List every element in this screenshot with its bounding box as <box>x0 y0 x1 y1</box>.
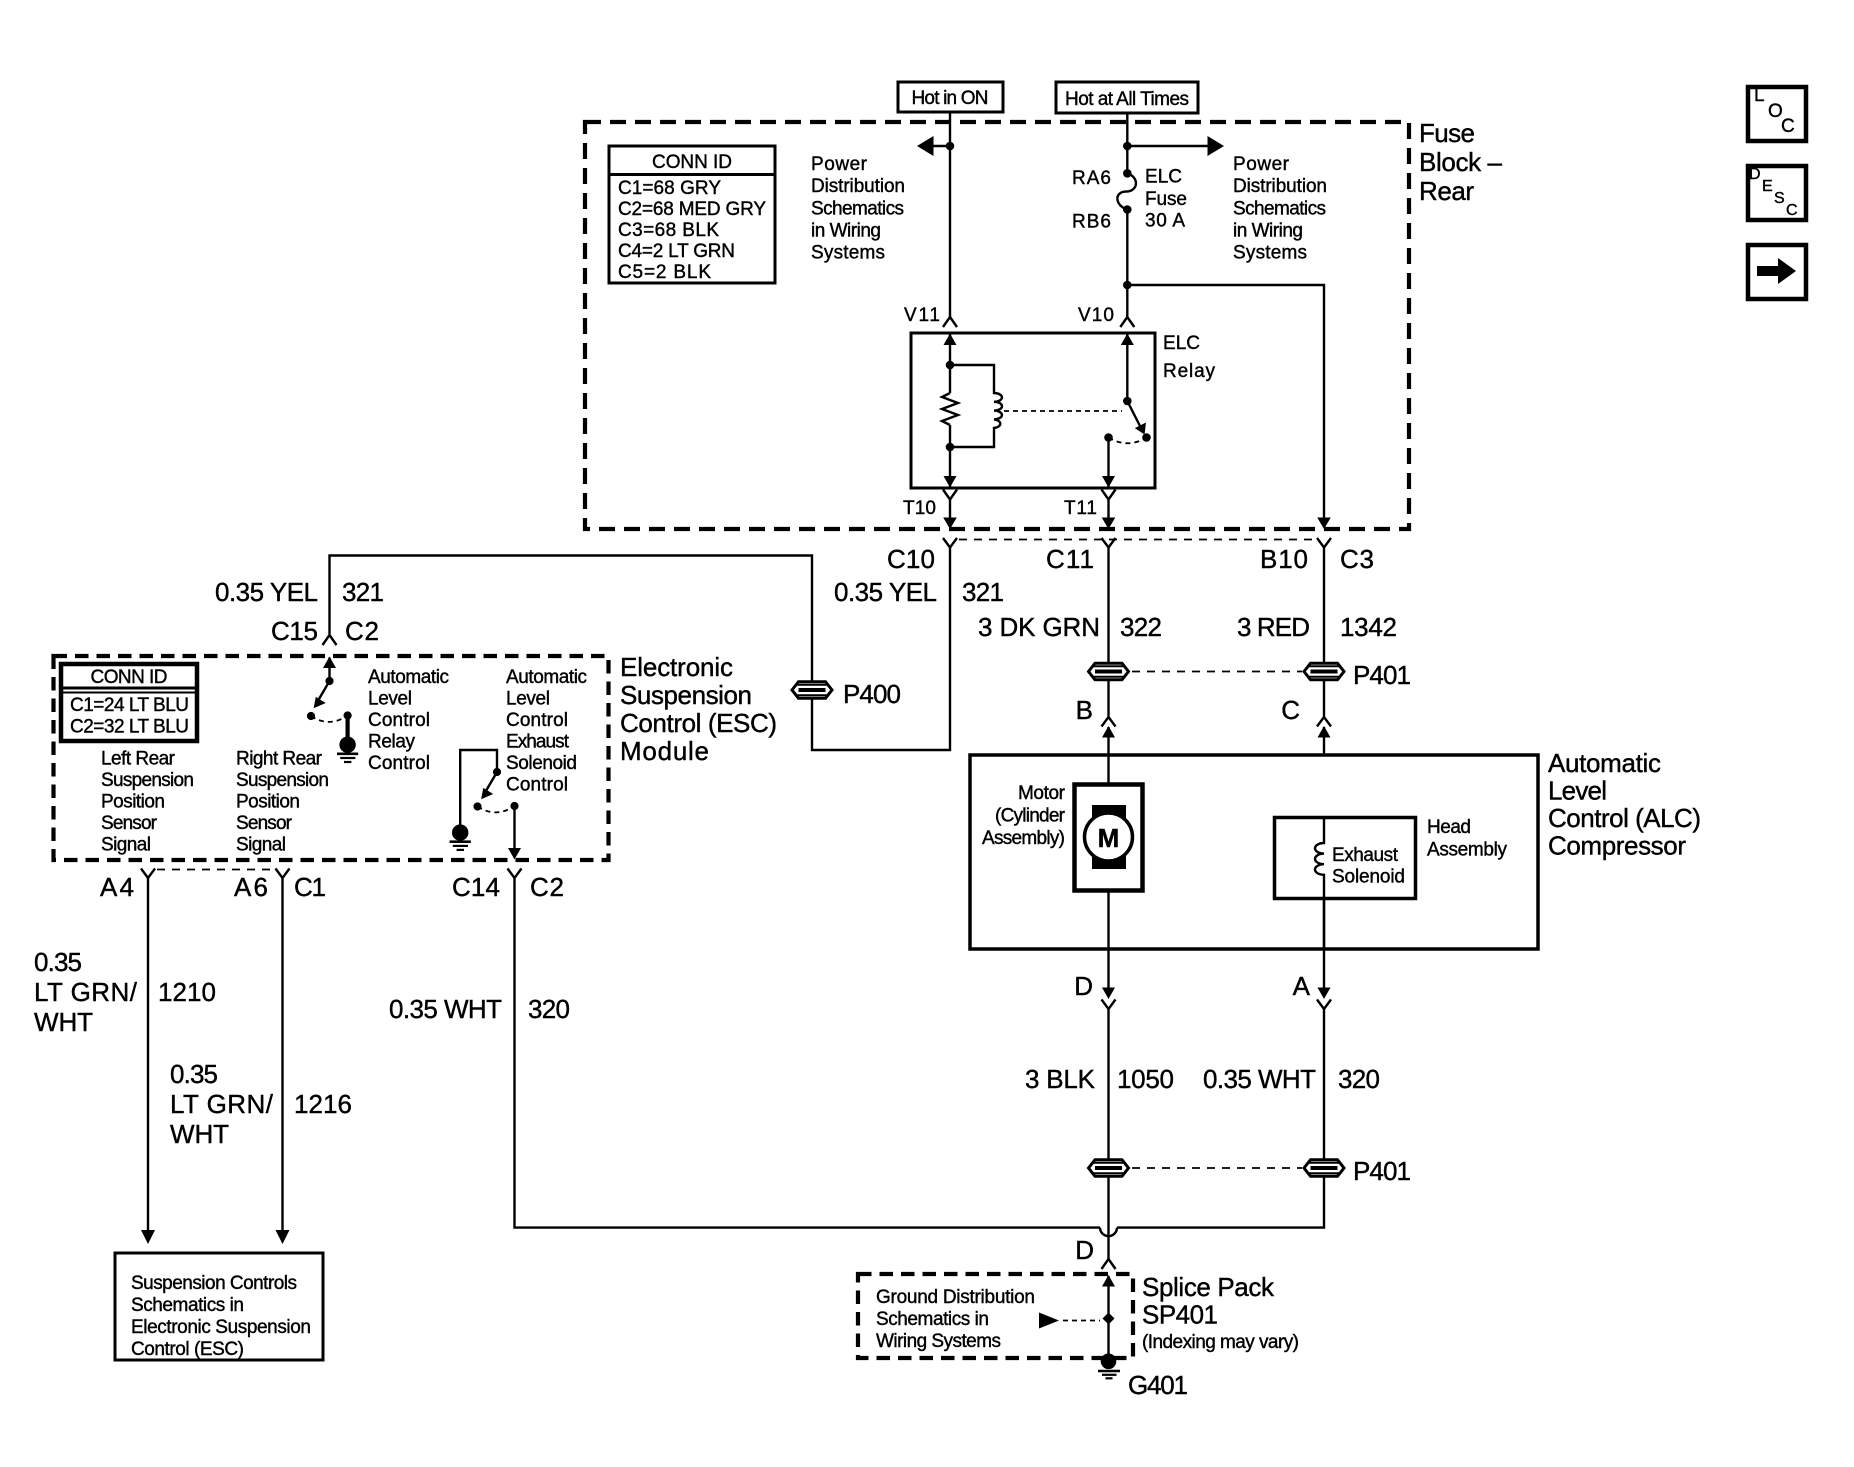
svg-text:WHT: WHT <box>34 1007 93 1037</box>
motor M1 (cylinder assembly) <box>1075 785 1143 891</box>
ELC relay box <box>911 333 1155 488</box>
svg-text:Position: Position <box>101 792 165 813</box>
svg-text:Control: Control <box>506 775 568 796</box>
exhaust solenoid control switch wiring <box>460 750 497 831</box>
svg-text:Control (ESC): Control (ESC) <box>620 708 777 738</box>
svg-text:Hot in ON: Hot in ON <box>912 88 989 109</box>
svg-text:Power: Power <box>1233 154 1290 175</box>
connector P401 lower left pass-through <box>1089 1160 1129 1177</box>
ALC compressor box <box>970 755 1538 949</box>
svg-text:RA6: RA6 <box>1072 168 1111 189</box>
relay pin T11 wire and male arrow down <box>1107 438 1109 488</box>
switch output post node <box>510 802 518 810</box>
relay pin T10 wire and male arrow down <box>949 425 951 487</box>
svg-text:0.35 WHT: 0.35 WHT <box>1203 1064 1316 1094</box>
svg-text:L: L <box>1754 85 1765 106</box>
label Splice Pack SP401 <box>1142 1272 1299 1353</box>
svg-text:3 DK GRN: 3 DK GRN <box>978 612 1100 642</box>
switch pivot node <box>325 677 333 685</box>
svg-text:Distribution: Distribution <box>1233 176 1327 197</box>
arrow to power distribution (right) <box>1127 145 1209 147</box>
connector T10 female chevron below relay <box>943 490 957 500</box>
pin C male arrow up <box>1323 727 1325 820</box>
svg-text:Fuse: Fuse <box>1145 189 1187 210</box>
wire A6/C1 sensor signal <box>281 878 283 1231</box>
label Electronic Suspension Control (ESC) Module <box>620 652 777 766</box>
node B10 branch <box>1123 281 1132 290</box>
svg-text:C: C <box>1281 695 1300 725</box>
relay resistor <box>942 393 958 425</box>
connector B10/C3 female chevron <box>1317 538 1331 548</box>
svg-text:CONN ID: CONN ID <box>652 152 732 173</box>
svg-text:Systems: Systems <box>1233 243 1307 264</box>
wire A to P401 lower <box>1323 1009 1325 1159</box>
wire A4 sensor signal <box>147 878 149 1231</box>
relay switch dashed arc <box>1109 438 1147 444</box>
ground lines (exhaust control) <box>450 840 471 843</box>
label 0.35 LT GRN/ WHT (A6) <box>170 1059 274 1149</box>
svg-text:322: 322 <box>1120 612 1162 642</box>
svg-text:M: M <box>1098 823 1120 853</box>
svg-text:0.35 WHT: 0.35 WHT <box>389 994 502 1024</box>
splice junction diamond <box>1103 1313 1115 1325</box>
exhaust solenoid feed wire through solenoid box <box>1323 817 1325 949</box>
relay pin V10 male arrow and switch common <box>1126 335 1128 402</box>
svg-text:Electronic: Electronic <box>620 652 733 682</box>
connector row dashed link line <box>959 539 1316 541</box>
relay switch arm end node <box>1142 433 1151 442</box>
relay coil branch <box>950 365 1002 447</box>
svg-text:C2: C2 <box>530 872 564 902</box>
suspension controls schematics box <box>115 1253 323 1360</box>
label ELC Relay <box>1163 333 1216 382</box>
exhaust solenooid box <box>1275 818 1416 899</box>
svg-text:A4: A4 <box>100 872 134 902</box>
ground lines (relay control) <box>337 752 358 755</box>
wire to C2 pin with male arrow down <box>513 806 515 848</box>
switch dashed arc (exhaust) <box>478 806 515 812</box>
svg-text:T10: T10 <box>903 498 936 519</box>
svg-text:Level: Level <box>1548 776 1607 806</box>
svg-text:in Wiring: in Wiring <box>811 221 881 242</box>
switch contact node <box>307 712 315 720</box>
label Ground Distribution Schematics in Wiring Systems <box>876 1287 1035 1352</box>
svg-text:Exhaust: Exhaust <box>506 732 570 753</box>
wire branch to B10 <box>1127 285 1324 519</box>
ELC fuse 30A element <box>1117 169 1136 214</box>
switch arm with arrowhead (exhaust) <box>487 772 498 790</box>
relay switch pivot node <box>1123 397 1132 406</box>
DESC button <box>1748 166 1806 220</box>
svg-text:Control (ESC): Control (ESC) <box>131 1339 244 1360</box>
node at power dist branch <box>1123 142 1132 151</box>
svg-text:in Wiring: in Wiring <box>1233 221 1303 242</box>
label 0.35 LT GRN/ WHT (A4) <box>34 947 138 1037</box>
svg-text:Control: Control <box>368 753 430 774</box>
switch arm with arrowhead <box>319 681 330 699</box>
wire C2 exhaust control to splice <box>515 878 1101 1228</box>
svg-text:Automatic: Automatic <box>506 667 587 688</box>
motor feed wire through box <box>1107 755 1109 890</box>
ground post <box>346 716 350 741</box>
svg-text:B: B <box>1076 695 1093 725</box>
svg-text:Right Rear: Right Rear <box>236 749 323 770</box>
arrow to power distribution (left) <box>933 145 950 147</box>
ground distribution dashed box <box>858 1274 1133 1358</box>
svg-text:(Indexing may vary): (Indexing may vary) <box>1142 1332 1299 1353</box>
svg-text:Electronic Suspension: Electronic Suspension <box>131 1317 311 1338</box>
svg-text:V11: V11 <box>904 305 940 326</box>
svg-text:320: 320 <box>1338 1064 1380 1094</box>
svg-text:Ground Distribution: Ground Distribution <box>876 1287 1035 1308</box>
connector C11 female chevron <box>1102 538 1116 548</box>
svg-text:C: C <box>1786 202 1798 219</box>
svg-text:C2=32 LT BLU: C2=32 LT BLU <box>70 717 189 738</box>
svg-text:Assembly): Assembly) <box>982 828 1065 849</box>
relay actuation dashed link <box>1004 410 1122 412</box>
svg-text:320: 320 <box>528 994 570 1024</box>
connector body dashed link A4-A6 <box>157 869 274 871</box>
svg-text:P400: P400 <box>843 679 901 709</box>
svg-text:Schematics in: Schematics in <box>876 1309 989 1330</box>
svg-text:C15: C15 <box>271 616 318 646</box>
fuse block - rear dashed enclosure <box>585 122 1409 529</box>
svg-text:Solenoid: Solenoid <box>506 753 577 774</box>
wire T10 to fuse block edge with male arrow <box>949 500 951 519</box>
svg-text:D: D <box>1075 1235 1094 1265</box>
svg-text:Level: Level <box>506 689 550 710</box>
label Automatic Level Control (ALC) Compressor <box>1548 748 1701 861</box>
svg-text:C1=68 GRY: C1=68 GRY <box>618 178 721 199</box>
svg-text:Exhaust: Exhaust <box>1332 845 1399 866</box>
svg-text:Schematics: Schematics <box>811 199 904 220</box>
svg-text:0.35 YEL: 0.35 YEL <box>834 577 937 607</box>
svg-text:Suspension: Suspension <box>236 770 329 791</box>
svg-text:3 BLK: 3 BLK <box>1025 1064 1096 1094</box>
svg-text:C4=2 LT GRN: C4=2 LT GRN <box>618 241 735 262</box>
wire C10 to P400 to C15 <box>330 548 951 751</box>
Hot in ON box <box>898 82 1003 112</box>
svg-text:D: D <box>1749 166 1761 183</box>
switch contact node (exhaust) <box>473 802 481 810</box>
label Motor (Cylinder Assembly) <box>982 783 1066 849</box>
label ELC Fuse 30 A <box>1145 167 1187 232</box>
next-page arrow button <box>1748 245 1806 299</box>
svg-text:Schematics: Schematics <box>1233 199 1326 220</box>
svg-text:S: S <box>1774 190 1785 207</box>
svg-text:30 A: 30 A <box>1145 211 1185 232</box>
svg-text:B10: B10 <box>1260 544 1308 574</box>
wire A6 endpoint triangle <box>276 1230 290 1244</box>
connector pin D female chevron <box>1102 1000 1116 1010</box>
svg-text:Control: Control <box>506 710 568 731</box>
svg-text:D: D <box>1074 971 1093 1001</box>
ALC relay control switch: male arrow at C2 pin <box>328 658 330 682</box>
svg-text:CONN ID: CONN ID <box>91 667 168 688</box>
svg-text:321: 321 <box>962 577 1004 607</box>
dashed link between upper P401 halves <box>1132 671 1302 673</box>
ground G401 lines <box>1098 1370 1120 1372</box>
svg-text:C14: C14 <box>452 872 500 902</box>
label Suspension Controls Schematics in ESC <box>131 1273 311 1360</box>
ground G401 ball <box>1101 1354 1117 1370</box>
wire T11 to fuse block edge with male arrow <box>1107 500 1109 519</box>
wire fuse output <box>1126 210 1128 318</box>
svg-text:Level: Level <box>368 689 412 710</box>
svg-text:0.35: 0.35 <box>34 947 82 977</box>
svg-text:C1=24 LT BLU: C1=24 LT BLU <box>70 695 189 716</box>
svg-text:E: E <box>1762 178 1773 195</box>
svg-text:Control: Control <box>368 710 430 731</box>
svg-text:T11: T11 <box>1064 498 1097 519</box>
wire Hot in ON feed <box>949 112 951 317</box>
svg-text:Position: Position <box>236 792 300 813</box>
svg-text:Relay: Relay <box>368 732 416 753</box>
svg-text:Compressor: Compressor <box>1548 831 1686 861</box>
label power distribution left <box>811 154 905 264</box>
connector splice D female chevron <box>1102 1259 1116 1269</box>
splice male arrow up into ground box <box>1107 1276 1109 1356</box>
label Left Rear Suspension Position Sensor Signal <box>101 749 194 856</box>
svg-text:0.35 YEL: 0.35 YEL <box>215 577 318 607</box>
reference arrow triangle <box>1039 1313 1059 1329</box>
connector V10 female chevron <box>1120 317 1134 327</box>
pin A male arrow down <box>1318 988 1331 1000</box>
wire C11 to motor <box>1107 548 1109 663</box>
node on Hot in ON feed <box>946 142 955 151</box>
svg-text:ELC: ELC <box>1163 333 1200 354</box>
svg-text:Suspension: Suspension <box>101 770 194 791</box>
solenoid output wire to ALC box bottom <box>1323 899 1325 988</box>
svg-text:1342: 1342 <box>1340 612 1397 642</box>
svg-text:C3=68 BLK: C3=68 BLK <box>618 220 719 241</box>
svg-text:Signal: Signal <box>101 835 151 856</box>
connector pin C female chevron <box>1317 717 1331 727</box>
svg-text:Suspension: Suspension <box>620 680 752 710</box>
svg-text:Automatic: Automatic <box>368 667 449 688</box>
svg-text:Sensor: Sensor <box>236 813 293 834</box>
connector C14/C2 female chevron <box>508 869 522 879</box>
svg-text:Left Rear: Left Rear <box>101 749 176 770</box>
svg-text:1210: 1210 <box>158 977 216 1007</box>
pin B male arrow up <box>1107 727 1109 786</box>
connector pin B female chevron <box>1102 717 1116 727</box>
connector C15 female chevron <box>323 635 337 645</box>
svg-text:0.35: 0.35 <box>170 1059 218 1089</box>
switch ground post node <box>344 711 352 719</box>
svg-text:C10: C10 <box>887 544 935 574</box>
wire Hot at All Times feed <box>1126 113 1128 174</box>
svg-text:SP401: SP401 <box>1142 1300 1218 1330</box>
svg-text:Rear: Rear <box>1419 176 1474 206</box>
svg-text:Hot at All Times: Hot at All Times <box>1065 89 1189 110</box>
LOC button <box>1748 85 1806 141</box>
svg-text:Suspension Controls: Suspension Controls <box>131 1273 297 1294</box>
label power distribution right <box>1233 154 1327 264</box>
svg-text:C3: C3 <box>1340 544 1374 574</box>
svg-text:(Cylinder: (Cylinder <box>995 806 1066 827</box>
svg-text:P401: P401 <box>1353 1156 1411 1186</box>
svg-text:1216: 1216 <box>294 1089 352 1119</box>
svg-text:321: 321 <box>342 577 384 607</box>
connector P401 lower right pass-through <box>1304 1160 1344 1177</box>
svg-text:Schematics in: Schematics in <box>131 1295 244 1316</box>
connector V11 female chevron <box>943 317 957 327</box>
label Fuse Block - Rear <box>1419 118 1503 206</box>
svg-text:A6: A6 <box>234 872 268 902</box>
connector A6/C1 female chevron <box>276 869 290 879</box>
dashed link between lower P401 halves <box>1132 1167 1302 1169</box>
wire D to P401 lower <box>1107 1009 1109 1159</box>
svg-text:1050: 1050 <box>1117 1064 1174 1094</box>
svg-text:P401: P401 <box>1353 660 1411 690</box>
label Automatic Level Control Exhaust Solenoid Control <box>506 667 587 796</box>
svg-text:Motor: Motor <box>1018 783 1066 804</box>
svg-text:C5=2 BLK: C5=2 BLK <box>618 262 711 283</box>
svg-text:Assembly: Assembly <box>1427 840 1508 861</box>
relay coil node bottom <box>946 443 955 452</box>
wire A4 endpoint triangle <box>141 1230 155 1244</box>
label Automatic Level Control Relay Control <box>368 667 449 774</box>
splice bus cup <box>1100 1228 1117 1237</box>
svg-text:Systems: Systems <box>811 243 885 264</box>
connector P401 upper right pass-through <box>1304 663 1344 680</box>
label Head Assembly <box>1427 817 1508 861</box>
svg-text:Distribution: Distribution <box>811 176 905 197</box>
wire B10 male arrow at fuse block edge <box>1317 518 1331 530</box>
motor output wire to ALC box bottom <box>1107 890 1109 988</box>
svg-text:C11: C11 <box>1046 544 1094 574</box>
svg-text:Sensor: Sensor <box>101 813 158 834</box>
svg-text:Relay: Relay <box>1163 361 1216 382</box>
svg-text:V10: V10 <box>1078 305 1114 326</box>
label Right Rear Suspension Position Sensor Signal <box>236 749 329 856</box>
connector pin A female chevron <box>1317 1000 1331 1010</box>
svg-text:ELC: ELC <box>1145 167 1182 188</box>
switch pivot node (exhaust) <box>493 768 501 776</box>
svg-text:C2: C2 <box>345 616 379 646</box>
switch dashed arc <box>311 716 348 722</box>
wire into pin C <box>1323 548 1325 663</box>
svg-text:Control (ALC): Control (ALC) <box>1548 803 1701 833</box>
svg-text:Fuse: Fuse <box>1419 118 1475 148</box>
relay switch arm <box>1127 401 1140 426</box>
svg-text:Signal: Signal <box>236 835 286 856</box>
svg-text:Solenoid: Solenoid <box>1332 867 1405 888</box>
reference dashed link <box>1063 1320 1100 1322</box>
svg-text:G401: G401 <box>1128 1370 1188 1400</box>
svg-text:Wiring Systems: Wiring Systems <box>876 1331 1001 1352</box>
svg-text:C1: C1 <box>294 872 326 902</box>
svg-text:WHT: WHT <box>170 1119 229 1149</box>
svg-text:RB6: RB6 <box>1072 212 1111 233</box>
connector P401 upper left pass-through <box>1089 663 1129 680</box>
relay switch contact node <box>1104 433 1113 442</box>
connector T11 female chevron below relay <box>1102 490 1116 500</box>
svg-text:Head: Head <box>1427 817 1471 838</box>
solenoid coil L1 <box>1315 818 1324 900</box>
svg-text:C: C <box>1781 116 1795 137</box>
Hot at All Times box <box>1056 82 1198 113</box>
relay pin V11 male arrow <box>949 335 951 394</box>
svg-text:Splice Pack: Splice Pack <box>1142 1272 1275 1302</box>
svg-text:Block –: Block – <box>1419 147 1503 177</box>
ground ball (exhaust control) <box>452 824 468 840</box>
svg-text:A: A <box>1293 971 1311 1001</box>
svg-text:LT GRN/: LT GRN/ <box>170 1089 274 1119</box>
connector A4 female chevron <box>141 869 155 879</box>
pin D male arrow down <box>1102 988 1115 1000</box>
svg-text:LT GRN/: LT GRN/ <box>34 977 138 1007</box>
svg-text:Automatic: Automatic <box>1548 748 1661 778</box>
connector C10 female chevron <box>943 538 957 548</box>
wire A return to splice bus <box>1117 1177 1324 1228</box>
svg-text:Power: Power <box>811 154 868 175</box>
wire D below P401 through splice cup <box>1107 1177 1109 1260</box>
svg-text:C2=68 MED GRY: C2=68 MED GRY <box>618 199 766 220</box>
connector P400 pass-through <box>792 682 832 699</box>
CONN ID table (ESC) <box>61 664 197 741</box>
label Exhaust Solenoid <box>1332 845 1405 888</box>
svg-text:Module: Module <box>620 736 709 766</box>
ground ball (relay control) <box>339 737 355 753</box>
wire into pin B <box>1107 680 1109 717</box>
svg-text:3 RED: 3 RED <box>1237 612 1310 642</box>
CONN ID table (fuse block) <box>609 146 775 283</box>
ESC module dashed enclosure <box>54 656 609 860</box>
relay coil node top <box>946 361 955 370</box>
